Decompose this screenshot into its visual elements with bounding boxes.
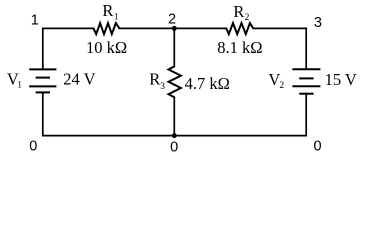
svg-text:15 V: 15 V bbox=[325, 70, 357, 89]
svg-text:10 kΩ: 10 kΩ bbox=[86, 38, 127, 57]
svg-text:3: 3 bbox=[314, 15, 322, 31]
svg-text:2: 2 bbox=[245, 13, 250, 23]
svg-text:0: 0 bbox=[314, 139, 322, 155]
svg-text:1: 1 bbox=[114, 13, 119, 23]
svg-text:R: R bbox=[102, 1, 113, 20]
svg-text:3: 3 bbox=[160, 82, 165, 92]
svg-text:R: R bbox=[149, 70, 160, 89]
svg-text:1: 1 bbox=[17, 80, 22, 90]
svg-text:1: 1 bbox=[31, 13, 39, 29]
svg-text:24 V: 24 V bbox=[63, 70, 95, 89]
svg-text:8.1 kΩ: 8.1 kΩ bbox=[217, 38, 262, 57]
svg-text:2: 2 bbox=[279, 81, 284, 91]
svg-text:4.7 kΩ: 4.7 kΩ bbox=[185, 74, 230, 93]
svg-text:0: 0 bbox=[170, 139, 178, 155]
svg-text:R: R bbox=[233, 2, 244, 21]
svg-text:2: 2 bbox=[168, 11, 176, 27]
svg-text:0: 0 bbox=[29, 139, 37, 155]
